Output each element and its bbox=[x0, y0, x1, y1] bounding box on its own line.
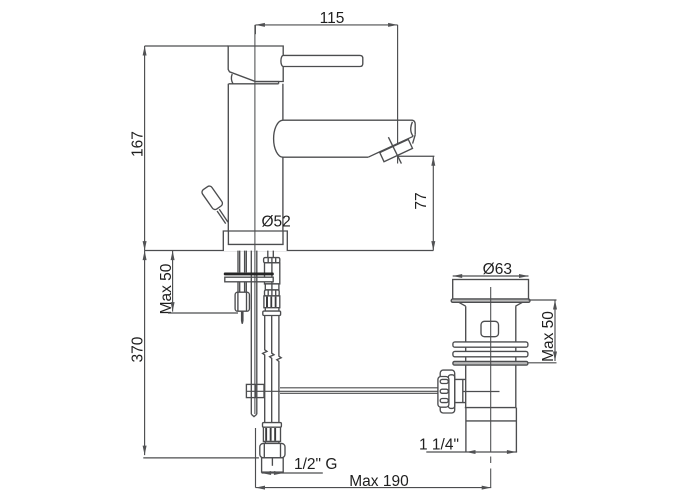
svg-text:Ø52: Ø52 bbox=[262, 214, 291, 231]
svg-text:167: 167 bbox=[130, 131, 147, 157]
horizontal link rod bbox=[246, 388, 440, 394]
supply hose nut 1/2G bbox=[260, 443, 285, 457]
extension lines Max 50 right bbox=[528, 300, 557, 363]
dimension 1 1/4 arrows bbox=[466, 450, 516, 454]
head seam lines bbox=[229, 82, 279, 84]
extension line faucet axis to Max 190 bbox=[255, 428, 257, 488]
dimension 77 text bbox=[413, 192, 430, 209]
knurled nut grip bbox=[438, 377, 449, 408]
dimension 115 line bbox=[255, 25, 397, 34]
extension line aerator tip bbox=[398, 155, 435, 157]
dimension 167 line bbox=[144, 46, 146, 251]
spout tip corner line bbox=[413, 135, 416, 144]
dimension 77 line bbox=[432, 156, 434, 250]
svg-text:Max 190: Max 190 bbox=[349, 473, 409, 490]
drain flange bbox=[453, 280, 529, 300]
dimension Max 50 right arrows bbox=[553, 300, 557, 361]
supply hose braid lower bbox=[263, 427, 280, 441]
drain lower body bbox=[466, 408, 517, 452]
dimension 370 text bbox=[130, 336, 147, 362]
dimension 167 text bbox=[130, 131, 147, 157]
mounting gasket washer plate bbox=[225, 277, 273, 282]
svg-text:1/2" G: 1/2" G bbox=[294, 456, 337, 473]
base flange inner lines bbox=[228, 231, 283, 244]
supply hose crimp body bbox=[265, 263, 280, 284]
svg-text:115: 115 bbox=[320, 10, 345, 27]
nut connector bbox=[455, 379, 466, 403]
dimension 1 1/4 line bbox=[426, 451, 517, 453]
dimension 1/2 G arrows bbox=[262, 471, 284, 475]
supply hose stub bbox=[268, 251, 274, 258]
dimension 167 arrows bbox=[143, 46, 147, 251]
stud tip bbox=[242, 311, 243, 324]
dimension Max 50 right text bbox=[540, 311, 557, 362]
dimension Max 50 left text bbox=[158, 263, 175, 314]
knurled nut back bbox=[440, 370, 455, 413]
spout bbox=[283, 120, 415, 157]
drain centerline bbox=[490, 287, 492, 488]
faucet body bbox=[228, 84, 283, 231]
dimension Ø63 line bbox=[453, 275, 529, 277]
dimension Max 50 left arrows bbox=[171, 251, 175, 312]
dimension Max 190 line bbox=[256, 487, 492, 489]
spout left cap arc bbox=[274, 120, 283, 157]
dimension 370 arrows bbox=[143, 251, 147, 456]
drain gasket ring bbox=[453, 361, 528, 365]
supply hose neck bbox=[265, 284, 279, 290]
svg-text:77: 77 bbox=[413, 192, 430, 209]
dimension 115 arrows bbox=[255, 23, 397, 27]
dimension 77 arrows bbox=[431, 156, 435, 250]
base flange bbox=[223, 231, 287, 251]
drain taper bbox=[459, 302, 523, 306]
dimension Max 50 right line bbox=[554, 300, 556, 361]
lever handle bbox=[281, 55, 363, 66]
spout tip cut edge bbox=[368, 136, 413, 157]
spout tip cut arc bbox=[411, 122, 414, 137]
supply hose neck 2 bbox=[265, 308, 279, 311]
extension line head top bbox=[145, 45, 229, 47]
aerator bbox=[380, 139, 413, 161]
aerator axis line bbox=[388, 137, 401, 163]
head collar arc bbox=[231, 74, 233, 84]
mounting stud bbox=[238, 251, 246, 273]
dimension 370 line bbox=[144, 251, 146, 456]
drain overflow hole bbox=[481, 321, 499, 336]
faucet head bbox=[228, 46, 283, 82]
drain flange lip bbox=[451, 299, 530, 302]
dimension Max 50 left line bbox=[172, 251, 174, 312]
extension line hose bottom bbox=[143, 457, 259, 459]
rubber gasket (dark) bbox=[224, 273, 274, 276]
side knob bbox=[201, 185, 224, 211]
faucet centerline bbox=[254, 25, 256, 414]
supply hose collar bbox=[263, 311, 281, 315]
supply hose hex B bbox=[265, 290, 280, 296]
supply hose top hex bbox=[264, 258, 280, 263]
supply hose tailpiece bbox=[262, 458, 284, 472]
extension line aerator to 115 dim bbox=[397, 25, 399, 164]
svg-text:Max 50: Max 50 bbox=[540, 311, 557, 362]
countertop line bbox=[145, 250, 434, 252]
supply hose braid upper bbox=[264, 296, 280, 308]
knurled nut core bbox=[448, 375, 454, 409]
extension line nut bottom bbox=[168, 312, 238, 314]
svg-text:1 1/4": 1 1/4" bbox=[419, 437, 459, 454]
dimension 1/2 G line bbox=[262, 472, 323, 474]
mounting nut bbox=[235, 292, 249, 311]
pop-up rod bbox=[251, 251, 256, 415]
knob stem bbox=[217, 209, 228, 223]
rod into drain body bbox=[463, 391, 500, 393]
drain body step bbox=[465, 407, 517, 409]
supply hose neck 3 bbox=[265, 442, 279, 444]
supply hose tube with break bbox=[263, 316, 267, 423]
dimension Max 190 arrows bbox=[256, 486, 492, 490]
drain ring 2 bbox=[453, 351, 528, 356]
rod clamp block bbox=[246, 384, 264, 397]
drain body bbox=[466, 306, 516, 407]
supply hose lower collar bbox=[263, 423, 282, 428]
knurl slots bbox=[440, 379, 448, 383]
svg-text:370: 370 bbox=[130, 336, 147, 362]
dimension Ø63 arrows bbox=[453, 274, 529, 278]
drain ring 1 bbox=[453, 342, 528, 347]
svg-text:Max 50: Max 50 bbox=[158, 263, 175, 314]
